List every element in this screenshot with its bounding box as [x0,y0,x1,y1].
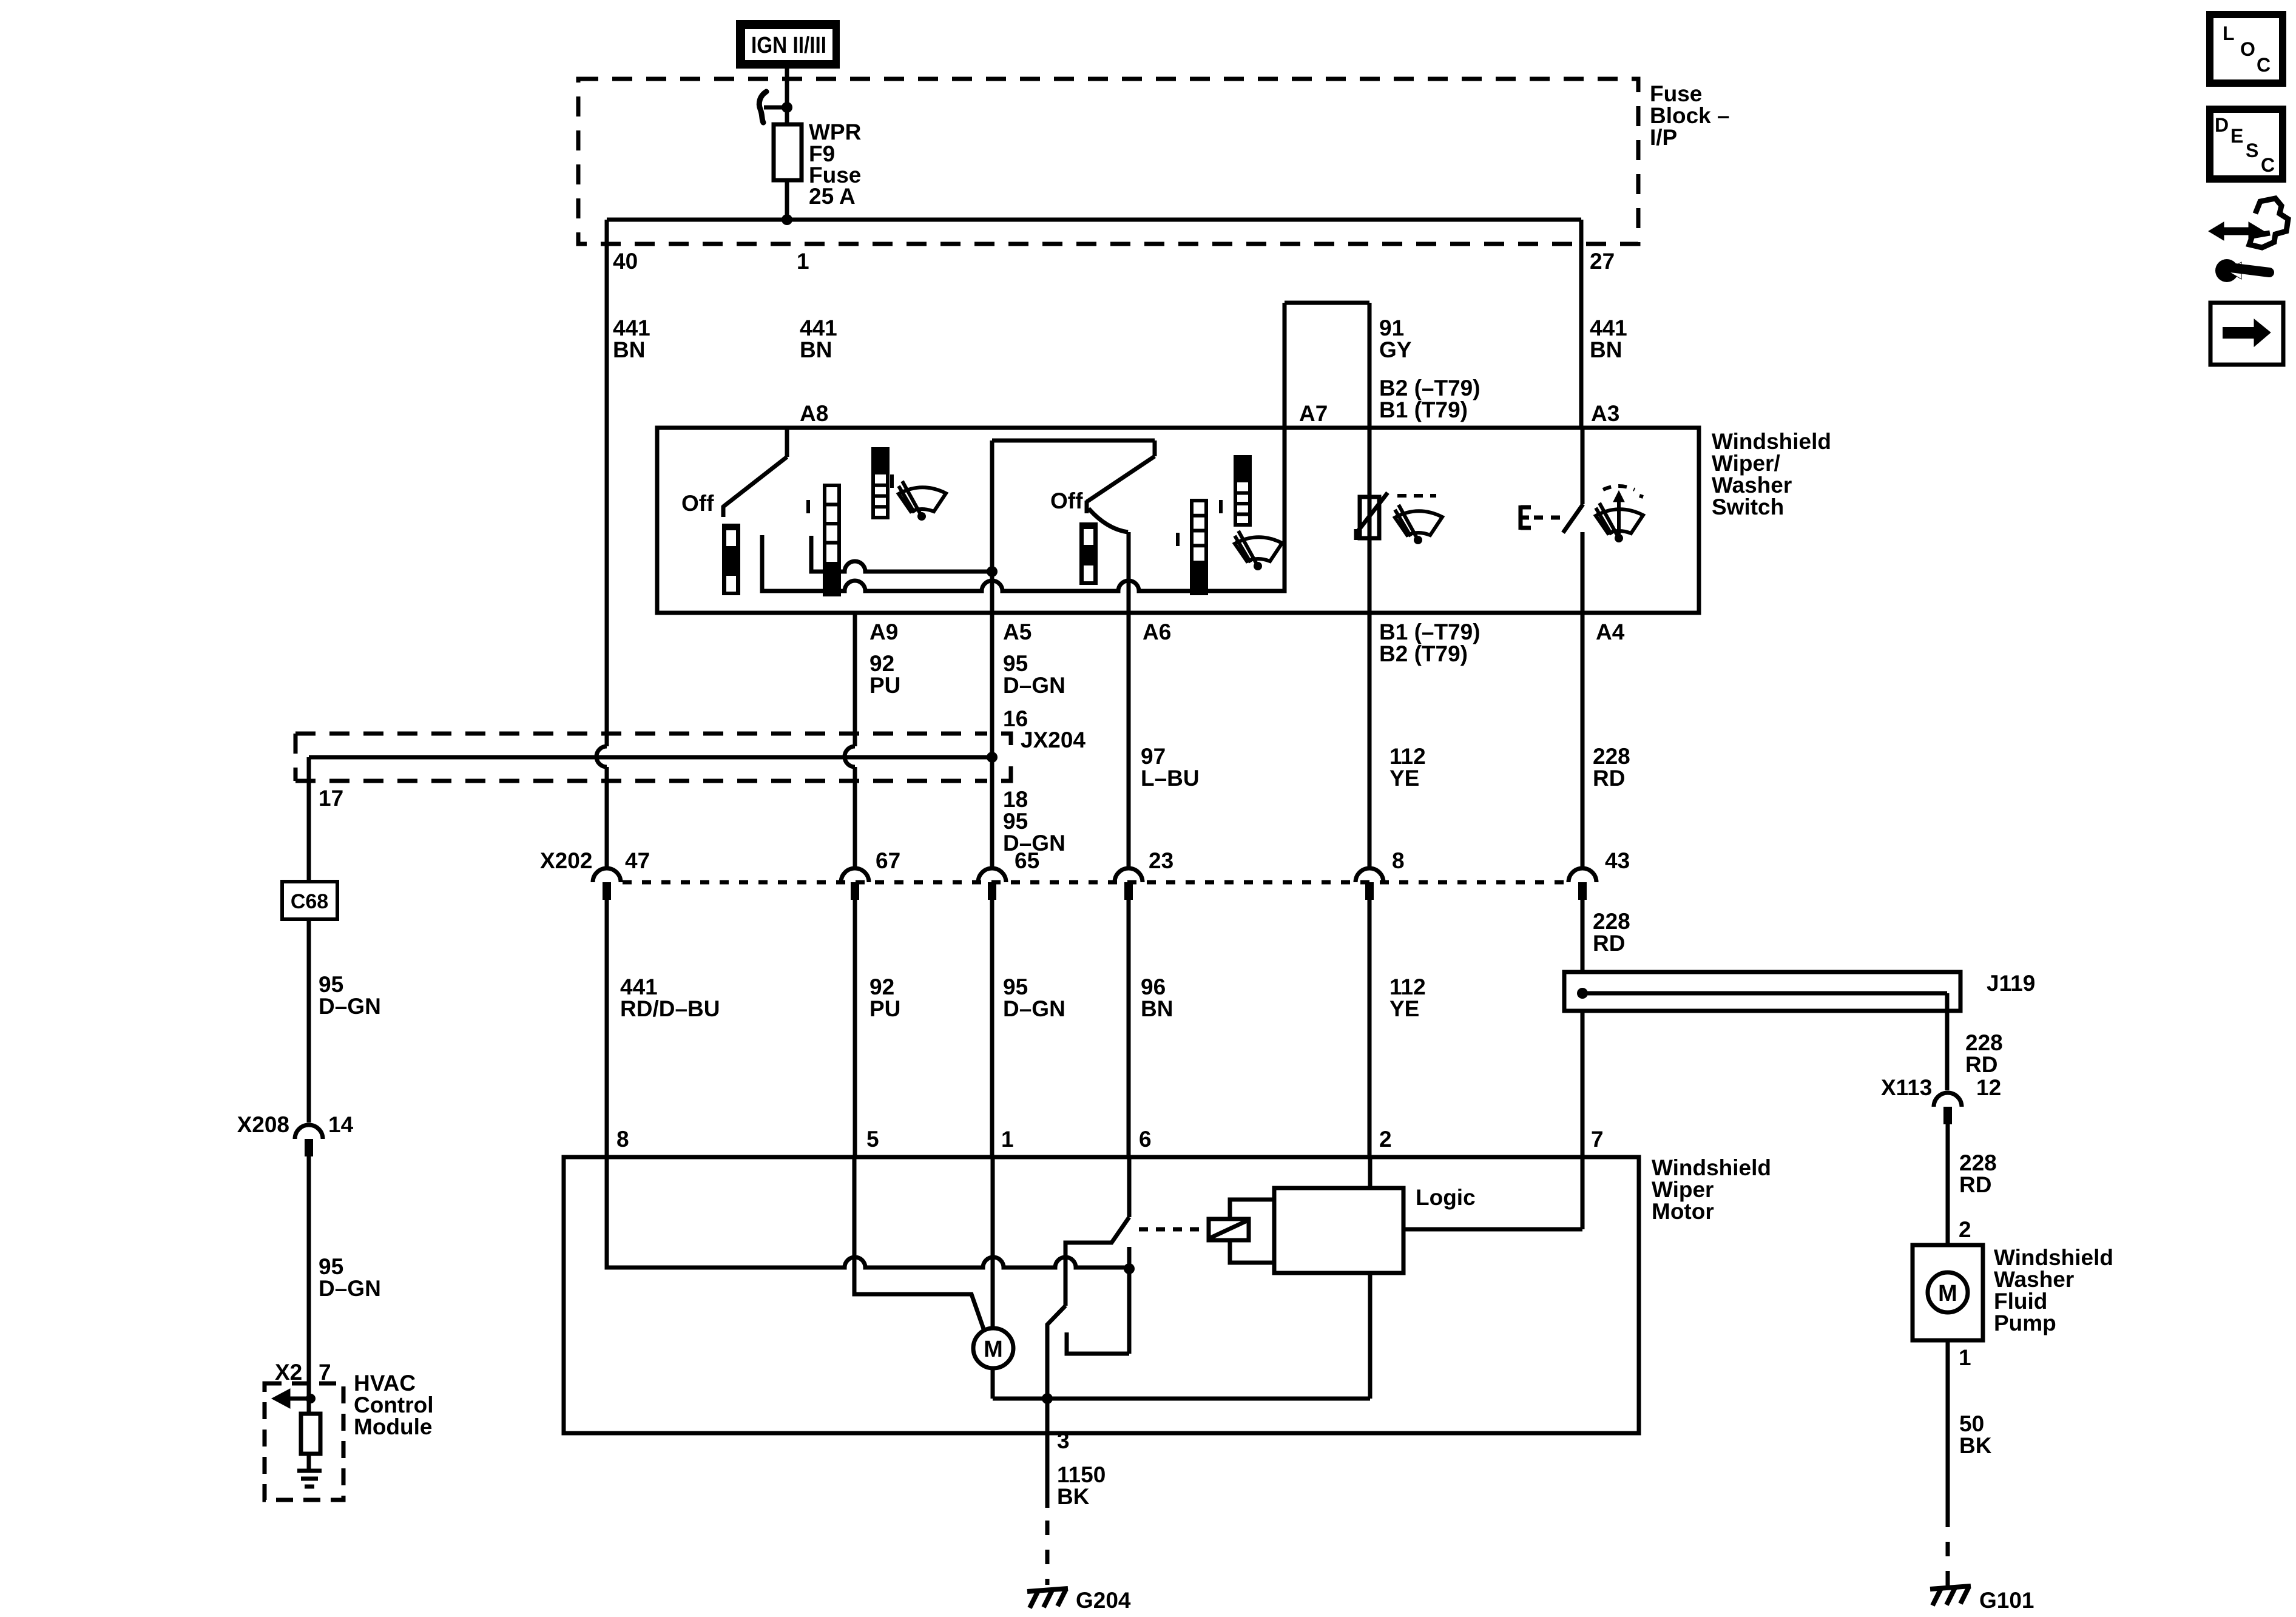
svg-text:HVAC: HVAC [354,1371,416,1396]
svg-text:BN: BN [1590,337,1622,362]
wire 96 BN lower [1127,900,1131,1157]
svg-text:7: 7 [319,1360,331,1385]
relay coil [1209,1219,1249,1240]
wire 17 elbow down [307,757,311,882]
svg-text:RD: RD [1593,766,1625,791]
svg-text:95: 95 [319,972,343,997]
wire 40 441 BN [605,220,609,746]
svg-text:12: 12 [1976,1075,2001,1100]
svg-text:8: 8 [1392,848,1405,873]
svg-text:Windshield: Windshield [1994,1245,2113,1270]
svg-text:1: 1 [1959,1345,1971,1370]
wire 112 YE lower [1368,900,1372,1157]
svg-text:50: 50 [1959,1411,1984,1436]
wire 27 441 BN to A3 [1579,220,1584,428]
svg-text:27: 27 [1590,249,1615,274]
svg-text:YE: YE [1389,766,1419,791]
svg-text:D–GN: D–GN [1003,673,1065,698]
svg-text:RD: RD [1593,931,1625,956]
variable delay resistor [1360,497,1379,538]
svg-text:441: 441 [1590,316,1627,340]
svg-text:PU: PU [869,996,900,1021]
wire into HVAC [307,1383,311,1414]
wire 95 D-GN to X208 [307,919,311,1122]
logic module box [1274,1188,1403,1273]
svg-text:95: 95 [1003,809,1028,834]
svg-text:Windshield: Windshield [1652,1155,1771,1180]
svg-text:228: 228 [1959,1150,1997,1175]
svg-text:Washer: Washer [1712,473,1792,498]
svg-text:PU: PU [869,673,900,698]
svg-text:A8: A8 [800,401,828,426]
wire 92 PU lower [853,900,857,1157]
svg-text:40: 40 [613,249,638,274]
wiper icon delay [1395,496,1442,544]
delay dashes [1397,494,1436,498]
svg-text:97: 97 [1141,744,1166,769]
svg-text:Motor: Motor [1652,1199,1714,1224]
detent bar section2 pos1 [1079,522,1098,585]
fuse F9 WPR 25A [774,124,802,180]
svg-text:Windshield: Windshield [1712,429,1831,454]
wire 441 RD/D-BU [605,900,609,1157]
wiper motor M [973,1328,1013,1368]
contact cup to A9 wire [811,536,992,572]
DESC navigation icon [2210,109,2283,179]
svg-text:RD/D–BU: RD/D–BU [620,996,720,1021]
svg-text:D–GN: D–GN [1003,996,1065,1021]
dashed wire to G204 [1045,1521,1050,1585]
svg-text:X113: X113 [1881,1075,1932,1100]
svg-text:96: 96 [1141,974,1166,999]
svg-text:M: M [984,1337,1003,1362]
svg-text:A5: A5 [1003,619,1032,644]
ground symbol HVAC [297,1469,322,1473]
svg-text:BK: BK [1057,1484,1090,1509]
svg-text:8: 8 [616,1127,629,1152]
ground G101 [1930,1586,1971,1605]
svg-text:X208: X208 [237,1112,289,1137]
wire 91 GY loop A7 to B2/B1 [1283,303,1287,428]
svg-text:95: 95 [1003,651,1028,676]
svg-text:JX204: JX204 [1021,727,1086,752]
svg-text:228: 228 [1965,1030,2003,1055]
svg-text:1: 1 [1001,1127,1014,1152]
washer switch arm [1563,504,1583,533]
connector X113 pin 12 [1934,1093,1962,1107]
windshield wiper/washer switch box [657,428,1699,613]
wire 97 L-BU [1127,613,1131,868]
wire 228 RD to J119 [1581,900,1585,972]
svg-text:BN: BN [613,337,645,362]
position tick section1 b [890,474,894,488]
svg-text:Logic: Logic [1416,1185,1476,1210]
windshield wiper motor box [564,1157,1639,1433]
svg-text:G101: G101 [1979,1588,2034,1613]
svg-text:14: 14 [328,1112,354,1137]
wire 228 RD J119 to motor pin7 [1581,1011,1585,1157]
svg-text:Control: Control [354,1393,434,1417]
svg-text:2: 2 [1379,1127,1392,1152]
windshield washer fluid pump box [1913,1245,1983,1340]
svg-text:C: C [2257,54,2271,76]
svg-text:112: 112 [1389,744,1426,769]
svg-text:1: 1 [797,249,809,274]
junction dot ground bus [1042,1393,1053,1404]
junction dot park switch common [1124,1263,1135,1274]
relay coil leads to logic [1230,1200,1274,1219]
washer linkage dashes [1534,516,1562,520]
svg-text:1150: 1150 [1057,1462,1106,1487]
svg-text:Pump: Pump [1994,1311,2056,1335]
svg-text:Off: Off [681,491,714,516]
svg-text:18: 18 [1003,787,1028,812]
svg-text:25 A: 25 A [809,184,856,209]
svg-text:GY: GY [1379,337,1412,362]
svg-text:228: 228 [1593,909,1630,934]
svg-text:Wiper/: Wiper/ [1712,451,1780,476]
washer switch E symbol [1519,505,1523,530]
svg-text:3: 3 [1057,1428,1070,1453]
svg-text:5: 5 [866,1127,879,1152]
JX204 dashed box [295,732,987,736]
in-line connector C68 [282,882,337,919]
wire 228 RD to washer pump [1946,1124,1950,1245]
motor brush wire from pin1 [991,1157,995,1328]
next navigation icon [2210,303,2283,365]
svg-text:A6: A6 [1143,619,1171,644]
switch arm section1 Off [723,457,787,507]
svg-text:441: 441 [800,316,837,340]
svg-text:RD: RD [1965,1052,1997,1077]
svg-text:X2: X2 [275,1360,302,1385]
HVAC control module dashed box [265,1383,343,1500]
connector X202 pin 23 [1115,868,1143,882]
svg-text:WPR: WPR [809,120,861,144]
detent bar section1 pos2 [825,485,839,595]
connector X202 pin 8 [1356,868,1383,882]
svg-text:Module: Module [354,1414,432,1439]
motor brush wire from pin5 [854,1157,984,1331]
dashed wire to G101 [1946,1513,1950,1586]
park switch arm upper from pin6 [1127,1157,1132,1217]
detent bar section2 pos3 [1235,457,1250,525]
junction dot on A5 wire [987,566,998,577]
svg-text:Fluid: Fluid [1994,1289,2047,1314]
wire 95 D-GN lower [990,900,994,1157]
motor internal feed wire from pin8 [607,1157,1129,1268]
svg-text:17: 17 [319,786,343,811]
wire 112 YE [1368,613,1372,868]
washer wiper icon [1596,486,1643,542]
wire 95 D-GN with JX204 [990,613,994,868]
position tick section1 a [806,500,810,513]
svg-text:RD: RD [1959,1172,1991,1197]
ground G204 [1027,1588,1068,1608]
wire B delay vertical [1368,428,1372,613]
park switch arm lower [1047,1306,1065,1399]
svg-text:91: 91 [1379,316,1404,340]
wire A4 out of washer switch [1581,532,1585,613]
detent bar section1 pos1 [722,524,740,595]
svg-text:E: E [2230,125,2243,147]
wire 92 PU [853,613,857,746]
svg-text:A9: A9 [869,619,898,644]
detent bar section1 pos3 [873,449,888,518]
motor bottom bus [993,1397,1370,1401]
junction dot HVAC [306,1394,316,1403]
svg-text:YE: YE [1389,996,1419,1021]
wire 228 RD J119 branch to X113 [1945,993,1950,1090]
wiper icon section2 [1235,531,1282,570]
svg-text:Wiper: Wiper [1652,1177,1714,1202]
wire 95 D-GN to HVAC [307,1156,311,1383]
svg-text:7: 7 [1591,1127,1604,1152]
svg-text:D–GN: D–GN [319,1276,381,1301]
svg-text:IGN II/III: IGN II/III [751,33,826,58]
wire logic to bottom bus [1368,1273,1373,1399]
power feed IGN II/III box [736,20,840,69]
X202 connector dotted line [623,880,1567,885]
wire A3 into washer switch [1581,428,1585,504]
svg-text:BN: BN [800,337,832,362]
svg-text:6: 6 [1139,1127,1152,1152]
svg-text:L–BU: L–BU [1141,766,1200,791]
svg-text:A3: A3 [1591,401,1619,426]
svg-text:Washer: Washer [1994,1267,2074,1292]
junction wire to HVAC [309,755,992,760]
svg-text:D: D [2215,114,2229,136]
svg-text:C: C [2261,154,2275,176]
resistor HVAC [301,1414,320,1454]
svg-text:C68: C68 [291,890,328,913]
svg-text:112: 112 [1389,974,1426,999]
svg-text:B2 (T79): B2 (T79) [1379,641,1468,666]
relay linkage dashes [1139,1227,1207,1232]
bus bar tap symbol [759,92,766,123]
svg-text:2: 2 [1959,1217,1971,1242]
svg-text:92: 92 [869,651,894,676]
svg-text:G204: G204 [1076,1588,1131,1613]
park switch contact stub [1127,1247,1132,1354]
svg-text:M: M [1938,1281,1957,1306]
fuse block dashed outline [578,79,1638,244]
svg-text:441: 441 [613,316,650,340]
svg-text:B2 (–T79): B2 (–T79) [1379,376,1481,400]
svg-text:S: S [2246,140,2258,161]
wire 228 RD from A4 [1581,613,1585,868]
wire 1150 BK pin3 [1045,1399,1050,1508]
connector X202 pin 65 [978,868,1006,882]
svg-text:BK: BK [1959,1433,1992,1458]
svg-text:Switch: Switch [1712,495,1784,519]
wiper icon section1 [899,481,946,521]
svg-text:Off: Off [1050,488,1083,513]
fuse output bus wire [607,218,1581,222]
connector X202 pin 43 [1568,868,1596,882]
washer pump motor M [1928,1272,1968,1312]
svg-text:O: O [2240,38,2255,60]
svg-text:B1 (T79): B1 (T79) [1379,397,1468,422]
svg-text:L: L [2223,22,2235,44]
detent bar section2 pos2 [1192,501,1206,593]
wire pin7 to logic [1581,1011,1585,1229]
svg-text:92: 92 [869,974,894,999]
svg-text:Block –: Block – [1650,103,1730,128]
svg-text:X202: X202 [540,848,592,873]
svg-text:I/P: I/P [1650,125,1677,150]
svg-text:A7: A7 [1299,401,1328,426]
splice pack J119 [1564,972,1960,1011]
signal arrow HVAC [285,1397,311,1401]
wire from IGN to fuse [785,69,789,124]
LOC navigation icon [2210,15,2283,83]
svg-text:Fuse: Fuse [1650,81,1702,106]
svg-text:95: 95 [319,1254,343,1279]
svg-text:65: 65 [1015,848,1039,873]
connector X202 pin 67 [841,868,869,882]
repair navigation icon [2209,198,2288,282]
svg-text:23: 23 [1149,848,1173,873]
wire pin2 to logic [1368,1157,1373,1188]
svg-text:95: 95 [1003,974,1028,999]
junction dot below fuse [782,214,792,225]
wire A5 internal top link [992,439,1155,443]
wire 50 BK [1946,1340,1950,1513]
connector X208 pin 14 [295,1125,323,1139]
junction dot ignition feed [782,102,792,113]
connector X202 pin 47 [593,868,621,882]
svg-text:228: 228 [1593,744,1630,769]
svg-text:441: 441 [620,974,658,999]
svg-text:B1 (–T79): B1 (–T79) [1379,619,1481,644]
park switch cup contact [1067,1332,1129,1354]
svg-text:67: 67 [876,848,900,873]
position tick section2 b [1219,500,1223,513]
wire A5 vertical [990,441,994,613]
wire A6 vertical [1127,532,1131,613]
contact cup to A7 internal wire [762,428,1285,591]
wire A8 stub into switch [785,428,789,457]
svg-text:J119: J119 [1987,971,2035,996]
switch arm section2 Off [1087,456,1155,502]
svg-text:D–GN: D–GN [319,994,381,1019]
svg-text:BN: BN [1141,996,1173,1021]
svg-text:47: 47 [625,848,650,873]
junction dot JX204 [987,752,998,763]
position tick section2 a [1176,533,1180,546]
wire to HVAC ground [307,1454,311,1471]
svg-text:43: 43 [1605,848,1630,873]
svg-text:A4: A4 [1596,619,1625,644]
